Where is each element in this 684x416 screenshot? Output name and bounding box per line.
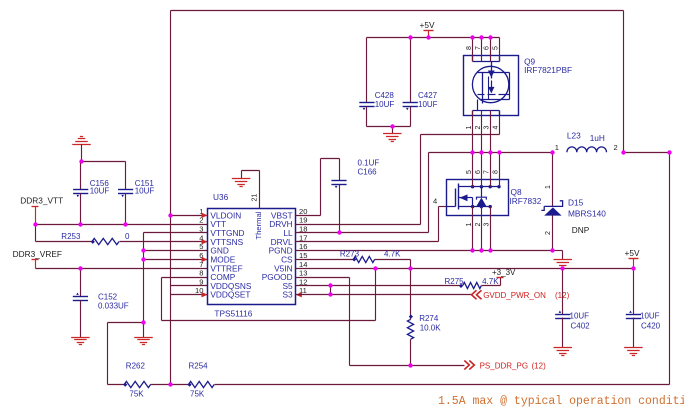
svg-text:D15: D15 (568, 197, 584, 207)
svg-text:5: 5 (493, 46, 500, 50)
wire: C156/C151 top link (82, 161, 126, 163)
svg-text:15: 15 (299, 251, 307, 260)
svg-text:PS_DDR_PG: PS_DDR_PG (480, 361, 528, 370)
diode D15 MBRS140 (DNP) (552, 153, 554, 207)
svg-text:TPS51116: TPS51116 (214, 309, 252, 319)
svg-text:7: 7 (484, 170, 491, 174)
svg-text:DDR3_VREF: DDR3_VREF (13, 249, 62, 259)
svg-text:5: 5 (466, 170, 473, 174)
svg-text:Thermal: Thermal (254, 211, 263, 239)
svg-text:+3_3V: +3_3V (492, 268, 516, 277)
svg-text:10UF: 10UF (570, 311, 590, 320)
wire: VDDQ loop left vertical (170, 11, 172, 385)
capacitor C402 (562, 269, 564, 315)
ground (top, inverted) above C156 (72, 144, 91, 146)
Q8 pin 3 (490, 207, 492, 251)
svg-text:L23: L23 (567, 130, 581, 140)
svg-text:C152: C152 (98, 293, 118, 302)
wire: C428/C427 bottom link (367, 126, 411, 128)
svg-text:3: 3 (484, 126, 491, 130)
transistor Q9 IRF7821PBF (464, 56, 519, 116)
svg-text:13: 13 (299, 269, 307, 278)
op-amp U36 TPS51116 body (208, 209, 296, 305)
svg-text:IRF7821PBF: IRF7821PBF (524, 65, 572, 75)
svg-text:DNP: DNP (572, 225, 590, 235)
ground under C420 (624, 347, 643, 349)
off-page GVDD_PWR_ON (472, 290, 482, 299)
Q8 pin 5 (472, 153, 474, 187)
svg-text:16: 16 (299, 242, 307, 251)
svg-text:8: 8 (466, 46, 473, 50)
off-page PS_DDR_PG (464, 361, 474, 370)
resistor R275 (463, 282, 482, 288)
svg-text:3: 3 (199, 224, 203, 233)
wire: DDR3_VTT bus to pin VTT (36, 224, 208, 226)
svg-text:10UF: 10UF (640, 311, 660, 320)
svg-text:7: 7 (475, 46, 482, 50)
svg-text:R262: R262 (126, 361, 146, 370)
wire: +5V top rail (367, 37, 500, 39)
svg-text:C166: C166 (358, 168, 378, 177)
resistor R273 (296, 259, 354, 261)
capacitor C166 (339, 159, 341, 181)
wire: VDDQSNS stub (171, 285, 208, 287)
svg-text:14: 14 (299, 260, 307, 269)
Q8 pin 7 (490, 153, 492, 187)
wire: L23 output to right edge (624, 152, 670, 154)
+5V symbol right (633, 259, 635, 269)
wire: DRVL to Q8 gate (296, 241, 439, 243)
svg-text:21: 21 (252, 194, 259, 202)
svg-text:8: 8 (199, 269, 203, 278)
ground under C152 (71, 337, 90, 339)
wire: bottom feedback wire (215, 384, 670, 386)
svg-text:VDDQSET: VDDQSET (210, 290, 250, 300)
svg-text:C427: C427 (418, 91, 438, 100)
svg-text:C420: C420 (641, 321, 661, 330)
svg-text:8: 8 (493, 170, 500, 174)
pin arrow VDDQSET (202, 292, 208, 297)
wire: VBST to C166 (296, 215, 321, 217)
wire: VDDQ loop drop to L23 output (623, 11, 625, 153)
ground PGND (554, 259, 573, 261)
svg-text:4.7K: 4.7K (384, 249, 401, 258)
+3_3V symbol (497, 277, 504, 279)
wire: jog to R262 (108, 322, 144, 324)
svg-text:1uH: 1uH (590, 133, 605, 143)
svg-text:4.7K: 4.7K (482, 277, 499, 286)
svg-text:10.0K: 10.0K (420, 324, 442, 333)
wire: VDDQ loop right vertical (669, 153, 671, 385)
resistor R254 (171, 384, 189, 386)
Q8 pin 2 (481, 207, 483, 251)
svg-text:R274: R274 (419, 314, 439, 323)
svg-text:75K: 75K (129, 389, 144, 398)
wire: VDDQ top loop horizontal (171, 10, 624, 12)
resistor R274 (410, 269, 412, 320)
inductor L23 (567, 147, 607, 152)
svg-text:9: 9 (199, 277, 203, 286)
Q9 pin 8 (472, 38, 474, 62)
svg-text:10UF: 10UF (135, 187, 155, 196)
wire: DDR3_VREF to pin VTTREF (36, 268, 208, 270)
Q8 pin 6 (481, 153, 483, 187)
Q8 pin 8 (499, 153, 501, 187)
svg-text:75K: 75K (190, 389, 205, 398)
svg-text:1: 1 (555, 143, 559, 152)
pin arrow MODE (202, 257, 208, 262)
Q8 pin 1 (472, 207, 474, 251)
capacitor C428 (366, 38, 368, 103)
svg-text:6: 6 (484, 46, 491, 50)
wire: COMP to rail jog (162, 277, 208, 279)
svg-text:6: 6 (475, 170, 482, 174)
capacitor C156 (80, 162, 82, 190)
svg-text:2: 2 (475, 126, 482, 130)
wire: VTTGND/GND/MODE tie (144, 232, 208, 234)
ground above U36 (232, 178, 251, 180)
svg-text:2: 2 (545, 231, 552, 235)
Q9 pin 6 (490, 38, 492, 62)
svg-text:C428: C428 (375, 91, 395, 100)
svg-text:MBRS140: MBRS140 (568, 208, 606, 218)
wire: VLDOIN stub (171, 215, 208, 217)
svg-text:2: 2 (614, 143, 618, 152)
svg-text:4: 4 (433, 196, 437, 205)
svg-text:0.033UF: 0.033UF (98, 301, 129, 310)
capacitor C152 (80, 269, 82, 297)
svg-text:DDR3_VTT: DDR3_VTT (20, 195, 63, 205)
svg-text:2: 2 (475, 223, 482, 227)
svg-text:1: 1 (466, 126, 473, 130)
svg-text:R273: R273 (340, 249, 360, 258)
svg-text:GVDD_PWR_ON: GVDD_PWR_ON (483, 291, 546, 300)
svg-text:10UF: 10UF (375, 100, 395, 109)
svg-text:10UF: 10UF (90, 187, 110, 196)
svg-text:4: 4 (493, 126, 500, 130)
Q9 pin 1 (472, 111, 474, 153)
svg-text:1: 1 (466, 223, 473, 227)
svg-text:IRF7832: IRF7832 (510, 196, 542, 206)
pin 21 thermal pad stub (259, 171, 261, 209)
svg-text:+5V: +5V (420, 20, 435, 30)
svg-text:20: 20 (299, 207, 307, 216)
pin arrow VTTSNS (202, 239, 208, 244)
svg-text:10UF: 10UF (418, 100, 438, 109)
svg-text:R275: R275 (445, 277, 465, 286)
svg-text:1.5A max @ typical operation c: 1.5A max @ typical operation conditio (438, 395, 684, 408)
capacitor C151 (125, 162, 127, 190)
svg-text:C402: C402 (571, 321, 591, 330)
svg-text:U36: U36 (213, 192, 229, 202)
wire: PGOOD to PS_DDR_PG (296, 277, 350, 279)
wire: V5IN +5V rail (296, 268, 634, 270)
Q9 pin 2 (481, 111, 483, 153)
svg-text:0: 0 (125, 232, 130, 241)
svg-text:R254: R254 (189, 361, 209, 370)
pin arrow VLDOIN (202, 213, 208, 218)
wire: DRVH (296, 224, 421, 226)
wire: S3 to GVDD_PWR_ON (296, 294, 472, 296)
svg-text:S3: S3 (282, 290, 293, 300)
ground under C402 (554, 347, 573, 349)
wire: VDDQSET stub (171, 294, 208, 296)
transistor Q8 IRF7832 (447, 180, 509, 216)
svg-text:(12): (12) (532, 361, 547, 370)
Q9 pin 3 (490, 111, 492, 153)
wire: LL (296, 232, 429, 234)
ground center bottom (143, 323, 145, 338)
wire: S5 to R275 (296, 285, 463, 287)
wire: PGND (296, 250, 553, 252)
svg-text:19: 19 (299, 216, 307, 225)
svg-text:1: 1 (545, 185, 552, 189)
capacitor C427 (410, 38, 412, 103)
Q9 pin 5 (499, 38, 501, 62)
resistor R253 (36, 241, 93, 243)
svg-text:0.1UF: 0.1UF (358, 159, 380, 168)
svg-text:R253: R253 (61, 232, 81, 241)
junction dots (33, 222, 37, 226)
capacitor C420 (633, 269, 635, 315)
Q9 pin 7 (481, 38, 483, 62)
svg-text:+5V: +5V (625, 248, 640, 258)
pin arrow S3 (296, 292, 302, 297)
ground under C428/C427 (383, 133, 402, 135)
resistor R262 (124, 381, 150, 387)
wire: S5-S3 tie (330, 286, 332, 295)
svg-text:3: 3 (484, 223, 491, 227)
wire: drop to R253 (35, 225, 37, 242)
